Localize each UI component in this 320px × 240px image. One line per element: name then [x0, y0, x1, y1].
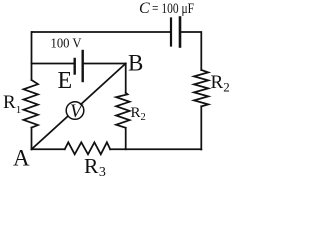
wire middle resistor to bottom — [125, 128, 127, 150]
resistor R2 middle zigzag — [116, 93, 130, 128]
battery E long plate — [81, 51, 83, 81]
svg-text:= 100 μF: = 100 μF — [152, 1, 194, 17]
wire diagonal A to B — [32, 64, 126, 150]
resistor R2 right zigzag — [194, 70, 208, 106]
svg-text:A: A — [13, 146, 30, 171]
svg-text:B: B — [128, 51, 143, 76]
resistor R3 zigzag — [65, 142, 111, 154]
svg-text:100 V: 100 V — [51, 36, 82, 51]
battery E short plate — [73, 59, 75, 74]
voltmeter circle — [66, 102, 84, 120]
wire node B down to middle resistor — [125, 64, 127, 93]
resistor R1 zigzag — [24, 80, 39, 128]
svg-text:C: C — [139, 0, 150, 17]
wire left side upper — [31, 32, 34, 80]
wire bottom right segment — [110, 148, 201, 150]
capacitor C left plate — [170, 19, 172, 46]
capacitor C right plate — [179, 18, 182, 47]
wire right side lower — [200, 106, 202, 149]
wire battery branch left — [32, 63, 74, 65]
wire battery to node B — [84, 63, 126, 65]
wire bottom left segment to node A — [32, 148, 65, 150]
wire capacitor to top-right corner and down right side — [180, 32, 201, 70]
svg-text:E: E — [58, 68, 73, 94]
wire top-left to capacitor — [32, 31, 171, 33]
wire left side lower — [31, 128, 33, 150]
